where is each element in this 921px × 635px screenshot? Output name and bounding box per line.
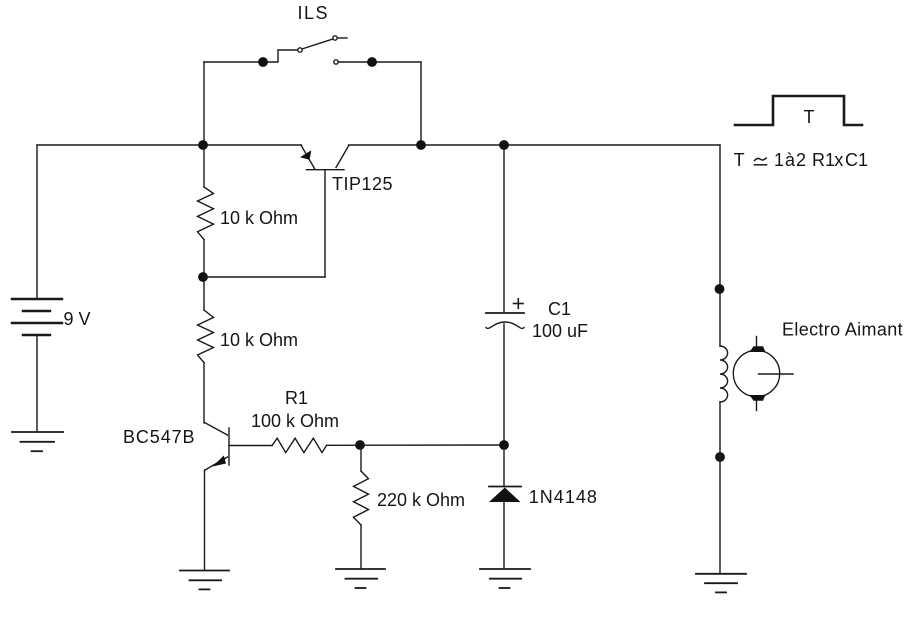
junction dot xyxy=(416,140,426,150)
junction dot node 220k xyxy=(355,440,365,450)
junction dot xyxy=(715,452,725,462)
ground diode xyxy=(480,569,530,588)
wire xyxy=(203,277,205,310)
wire xyxy=(360,445,362,471)
resistor 220k xyxy=(354,471,369,525)
junction dot xyxy=(715,284,725,294)
motor top brush contact xyxy=(750,346,766,352)
motor top stub xyxy=(756,337,758,347)
junction dot xyxy=(367,57,377,67)
capacitor C1 plus sign xyxy=(514,299,524,309)
svg-text:ILS: ILS xyxy=(298,3,330,23)
svg-text:C1: C1 xyxy=(548,299,571,319)
switch ILS blade end contact xyxy=(333,36,337,40)
resistor 10k upper xyxy=(198,187,214,240)
svg-text:C1: C1 xyxy=(845,150,868,170)
wire xyxy=(203,62,205,145)
wire main bus right xyxy=(349,144,721,146)
junction dot xyxy=(499,140,509,150)
svg-text:9 V: 9 V xyxy=(64,309,91,329)
wire right branch lower xyxy=(719,402,721,573)
resistor R1 100k xyxy=(272,438,327,452)
svg-text:R1: R1 xyxy=(812,150,835,170)
ground BC547B emitter xyxy=(180,571,229,590)
wire xyxy=(420,62,422,145)
switch ILS right fixed contact xyxy=(334,60,338,64)
wire right branch upper xyxy=(719,145,721,346)
svg-text:TIP125: TIP125 xyxy=(332,174,393,194)
motor shaft line xyxy=(759,373,794,375)
svg-text:10 k Ohm: 10 k Ohm xyxy=(220,330,298,350)
wire xyxy=(360,525,362,568)
svg-text:x: x xyxy=(834,150,843,170)
waveform pulse T xyxy=(735,96,862,125)
electromagnet motor body xyxy=(733,350,779,396)
junction dot node base TIP125 xyxy=(198,272,208,282)
wire main bus left xyxy=(37,144,302,146)
approx-equal symbol xyxy=(755,158,767,161)
capacitor C1 top plate xyxy=(486,312,524,314)
wire left rail xyxy=(36,145,38,298)
wire xyxy=(503,324,505,445)
switch ILS pivot contact xyxy=(298,48,302,52)
ground 220k xyxy=(336,569,385,588)
ground electro aimant xyxy=(696,574,746,593)
svg-text:T: T xyxy=(734,150,745,170)
wire xyxy=(338,37,348,39)
wire xyxy=(327,444,505,446)
ground battery xyxy=(12,432,63,451)
svg-text:2: 2 xyxy=(796,150,806,170)
svg-text:à: à xyxy=(785,150,796,170)
wire xyxy=(204,50,298,62)
inductor coil electro aimant xyxy=(720,346,728,402)
wire xyxy=(203,240,205,278)
battery B1 9V xyxy=(12,299,62,335)
transistor Q2 BC547B xyxy=(205,423,273,471)
svg-text:1N4148: 1N4148 xyxy=(529,487,598,507)
transistor U1 TIP125 xyxy=(300,146,349,277)
svg-text:R1: R1 xyxy=(285,388,308,408)
junction dot node diode xyxy=(499,440,509,450)
wire xyxy=(503,445,505,486)
svg-text:T: T xyxy=(804,107,815,127)
svg-text:Electro Aimant: Electro Aimant xyxy=(782,320,903,340)
wire xyxy=(339,61,422,63)
capacitor C1 curved plate xyxy=(486,322,524,328)
svg-text:220 k Ohm: 220 k Ohm xyxy=(377,490,465,510)
wire xyxy=(203,145,205,187)
motor bottom brush contact xyxy=(750,395,766,401)
resistor 10k lower xyxy=(198,310,214,363)
junction dot node V+ xyxy=(198,140,208,150)
motor bottom stub xyxy=(756,401,758,411)
svg-text:100 k Ohm: 100 k Ohm xyxy=(251,411,339,431)
wire emitter xyxy=(204,470,206,570)
switch ILS blade xyxy=(302,39,333,49)
junction dot xyxy=(258,57,268,67)
wire xyxy=(204,276,325,278)
wire xyxy=(503,502,505,568)
diode D1 1N4148 triangle xyxy=(489,488,521,503)
diode D1 1N4148 cathode bar xyxy=(489,486,521,488)
wire xyxy=(203,363,205,423)
svg-text:10 k Ohm: 10 k Ohm xyxy=(220,208,298,228)
svg-text:100 uF: 100 uF xyxy=(532,321,588,341)
wire xyxy=(36,335,38,431)
svg-text:BC547B: BC547B xyxy=(123,427,195,447)
wire C1 top xyxy=(503,145,505,312)
formula T approx 1 a 2 R1 x C1 xyxy=(734,150,868,170)
svg-text:1: 1 xyxy=(774,150,784,170)
